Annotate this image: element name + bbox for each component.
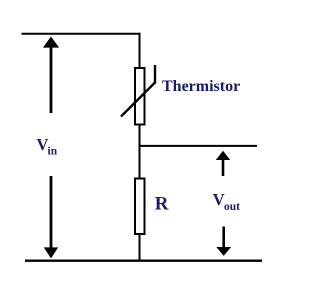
svg-text:Thermistor: Thermistor [162, 78, 240, 95]
svg-text:in: in [48, 146, 58, 158]
svg-text:V: V [213, 190, 225, 209]
svg-text:R: R [155, 194, 169, 215]
svg-text:out: out [224, 201, 240, 213]
